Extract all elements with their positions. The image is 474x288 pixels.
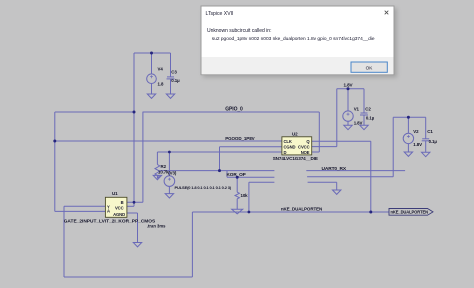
svg-text:(V3): (V3)	[168, 170, 177, 175]
svg-text:10k: 10k	[241, 193, 249, 198]
svg-text:C1: C1	[427, 129, 433, 134]
svg-text:Unknown subcircuit called in:: Unknown subcircuit called in:	[207, 28, 271, 34]
svg-text:UART0_RX: UART0_RX	[322, 166, 347, 172]
svg-text:C3: C3	[171, 70, 177, 75]
svg-text:LTspice XVII: LTspice XVII	[206, 11, 234, 17]
svg-text:V1: V1	[354, 106, 360, 111]
svg-text:VCC: VCC	[115, 205, 124, 210]
svg-text:C2: C2	[365, 106, 371, 111]
svg-text:CGND: CGND	[284, 145, 296, 150]
svg-text:KOR_OP: KOR_OP	[227, 172, 246, 177]
svg-text:NOE: NOE	[301, 150, 310, 155]
svg-text:0.1µ: 0.1µ	[171, 78, 180, 83]
svg-text:A: A	[107, 209, 110, 214]
svg-text:OK: OK	[366, 65, 374, 70]
svg-text:SN74LVC1G374__DIE: SN74LVC1G374__DIE	[273, 156, 318, 161]
svg-text:PULSE(0 1.8 0.1 0.1 0.1 0.1 0.: PULSE(0 1.8 0.1 0.1 0.1 0.1 0.2 3)	[175, 185, 232, 190]
svg-text:U1: U1	[112, 191, 118, 196]
svg-text:1.8V: 1.8V	[354, 121, 363, 126]
svg-text:nKE_DUALPORTEN: nKE_DUALPORTEN	[391, 210, 429, 215]
svg-text:R2: R2	[161, 164, 167, 169]
svg-text:AGND: AGND	[113, 212, 125, 217]
svg-text:GATE_2INPUT_LVIT_2I_KOR_PP_CMO: GATE_2INPUT_LVIT_2I_KOR_PP_CMOS	[64, 218, 156, 224]
svg-text:CLK: CLK	[284, 139, 292, 144]
svg-text:V4: V4	[158, 67, 164, 72]
svg-text:1.8V: 1.8V	[343, 82, 353, 87]
svg-text:1.8: 1.8	[158, 82, 164, 87]
svg-text:0.1µ: 0.1µ	[429, 139, 438, 144]
svg-text:1.8V: 1.8V	[413, 142, 422, 147]
svg-text:0.1µ: 0.1µ	[366, 116, 375, 121]
svg-text:su2 pgood_1p8v n002 n003 nke_d: su2 pgood_1p8v n002 n003 nke_dualporten …	[212, 36, 375, 42]
svg-text:nKE_DUALPORTEN: nKE_DUALPORTEN	[281, 206, 322, 211]
svg-text:V2: V2	[413, 129, 419, 134]
svg-text:PGOOD_1P8V: PGOOD_1P8V	[225, 136, 254, 141]
svg-text:GPIO_0: GPIO_0	[225, 106, 243, 112]
svg-text:U2: U2	[292, 131, 298, 136]
svg-text:.tran 3ms: .tran 3ms	[147, 223, 166, 228]
svg-text:D: D	[284, 150, 287, 155]
svg-text:CVCC: CVCC	[298, 145, 310, 150]
